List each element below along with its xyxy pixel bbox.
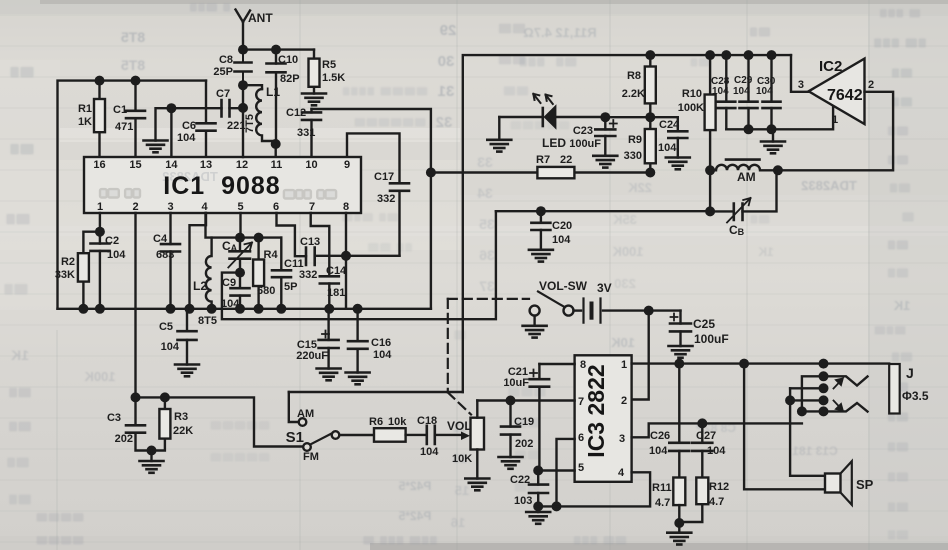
svg-text:15: 15 <box>455 483 469 498</box>
junction node pin4/rail <box>185 304 195 314</box>
dashed linkage VOL-SW to VOL <box>448 299 529 415</box>
wire left supply rail <box>58 81 207 309</box>
wire pin4 to rail <box>190 213 207 309</box>
inductor L2 <box>193 238 212 309</box>
wire pin11 stub <box>275 144 277 157</box>
wire pin1 to R2/C2 <box>83 213 100 253</box>
capacitor C15 220uF <box>296 309 338 369</box>
wire pin2 net to S1 FM <box>136 397 304 446</box>
svg-text:12: 12 <box>236 159 248 171</box>
svg-text:C29: C29 <box>734 75 753 86</box>
svg-text:VOL-SW: VOL-SW <box>539 279 588 293</box>
junction node C23 top <box>600 112 610 122</box>
svg-text:1: 1 <box>832 114 838 126</box>
IC1 bottom pin numbers <box>97 201 349 213</box>
svg-text:ANT: ANT <box>248 11 273 25</box>
wire jack ring feed <box>790 388 823 400</box>
resistor R12 4.7 <box>679 478 729 523</box>
resistor R10 100K <box>678 55 716 170</box>
switch S1 AM/FM <box>286 392 340 463</box>
capacitor C20 104 <box>531 211 572 250</box>
svg-text:100K: 100K <box>84 369 116 384</box>
IC1 9088 <box>84 157 361 213</box>
svg-text:32: 32 <box>436 114 453 131</box>
svg-text:C2: C2 <box>105 235 119 247</box>
svg-text:220uF: 220uF <box>296 350 328 362</box>
wire pin8 node <box>346 213 400 309</box>
junction node CB left <box>705 206 715 216</box>
capacitor C17 332 <box>374 171 409 256</box>
wire long vertical to top rail <box>463 55 791 392</box>
svg-text:14: 14 <box>165 159 178 171</box>
svg-text:104: 104 <box>161 341 180 353</box>
svg-text:LED: LED <box>542 136 566 150</box>
svg-text:C12: C12 <box>286 107 306 119</box>
junction node ant/C7 <box>238 103 248 113</box>
svg-text:4.7: 4.7 <box>709 496 724 508</box>
svg-text:29: 29 <box>440 22 457 39</box>
svg-text:34: 34 <box>477 185 493 201</box>
wire CA top net <box>206 213 282 238</box>
svg-text:100uF: 100uF <box>694 332 729 346</box>
svg-text:R1: R1 <box>78 103 92 115</box>
svg-text:9: 9 <box>344 159 350 171</box>
wire C28-C30 bottom to IC2 pin1 <box>726 106 833 130</box>
capacitor C26 104 <box>649 364 689 478</box>
svg-text:7: 7 <box>309 201 315 213</box>
svg-text:16: 16 <box>93 159 105 171</box>
svg-text:C6: C6 <box>182 120 196 132</box>
svg-text:5: 5 <box>237 201 243 213</box>
svg-text:R9: R9 <box>628 134 642 146</box>
variable capacitor CB <box>710 170 776 237</box>
svg-text:VOL: VOL <box>447 419 472 433</box>
svg-text:C24: C24 <box>659 119 680 131</box>
capacitor C30 104 <box>756 55 781 129</box>
svg-text:100uF: 100uF <box>569 138 601 150</box>
svg-text:C13: C13 <box>300 236 320 248</box>
junction node AM right <box>773 165 783 175</box>
svg-text:104: 104 <box>733 86 750 97</box>
junction node C10 top <box>271 45 281 55</box>
junction node ant/L1 <box>238 80 248 90</box>
svg-text:683: 683 <box>156 249 174 261</box>
ground below C20 <box>529 250 553 262</box>
svg-text:202: 202 <box>515 438 533 450</box>
wire jack sleeve feed <box>802 376 824 411</box>
LED with arrows <box>499 94 605 150</box>
junction node jack col 411 <box>819 406 829 416</box>
junction node C1 top <box>131 76 141 86</box>
capacitor C12 331 <box>286 107 321 157</box>
capacitor C23 100uF <box>569 117 617 156</box>
capacitor C13 332 <box>299 236 346 281</box>
svg-text:IC1 9088: IC1 9088 <box>163 172 280 200</box>
svg-text:1K: 1K <box>78 116 92 128</box>
variable capacitor CA <box>222 238 252 273</box>
wire bottom ground rail <box>58 308 431 310</box>
capacitor C16 104 <box>348 309 392 373</box>
junction node pin1 <box>95 227 105 237</box>
svg-text:C27: C27 <box>696 430 716 442</box>
inductor AM antenna coil <box>710 160 778 184</box>
junction node ant/C8 <box>238 45 248 55</box>
capacitor C24 104 <box>658 117 687 157</box>
svg-text:33: 33 <box>477 154 493 170</box>
junction node C27 top <box>697 418 707 428</box>
resistor R7 22 <box>536 154 574 178</box>
potentiometer VOL 10K <box>447 401 484 479</box>
junction node C9 bottom <box>235 304 245 314</box>
ground below C30 net <box>761 129 785 153</box>
svg-text:C7: C7 <box>216 88 230 100</box>
battery 3V <box>574 281 649 323</box>
capacitor C9 104 <box>221 273 250 310</box>
wire tuning loop CA to C20 net <box>222 211 496 319</box>
svg-text:C4: C4 <box>153 233 168 245</box>
ground below C5 <box>175 365 199 377</box>
IC3 2822 <box>575 355 632 482</box>
ground below C3/R3 <box>140 451 164 473</box>
svg-text:8: 8 <box>343 201 349 213</box>
svg-text:10uF: 10uF <box>503 377 529 389</box>
IC2 pin 3 lead <box>791 55 809 92</box>
svg-text:2: 2 <box>621 395 627 407</box>
junction node R3 top <box>160 392 170 402</box>
svg-text:10K: 10K <box>452 453 472 465</box>
svg-text:22K: 22K <box>173 425 193 437</box>
junction node B <box>797 406 807 416</box>
capacitor C11 5P <box>272 238 304 309</box>
svg-text:104: 104 <box>649 445 668 457</box>
capacitor C6 104 <box>177 81 216 157</box>
svg-text:R3: R3 <box>174 411 188 423</box>
svg-text:1: 1 <box>97 201 103 213</box>
junction node R8 top rail <box>645 50 655 60</box>
junction node C28 top <box>721 50 731 60</box>
wire IC3 pin3 <box>632 423 802 437</box>
svg-text:2: 2 <box>132 201 138 213</box>
svg-text:4: 4 <box>618 467 625 479</box>
svg-text:5P: 5P <box>284 281 297 293</box>
ground on pin14 net <box>144 108 172 152</box>
junction node L2 bottom <box>207 304 217 314</box>
junction node C22 top <box>533 466 543 476</box>
wire R7 net <box>431 171 650 173</box>
junction node battery/pin2 <box>644 306 654 316</box>
junction node AM left <box>705 165 715 175</box>
junction node C29 top <box>744 50 754 60</box>
headphone jack J 3.5mm <box>889 364 929 414</box>
junction node R1 top <box>95 76 105 86</box>
IC2 pin 2 output loop <box>778 79 893 170</box>
svg-text:100K: 100K <box>678 102 704 114</box>
svg-text:C1: C1 <box>113 104 127 116</box>
junction node C26 top <box>674 359 684 369</box>
capacitor C22 103 <box>510 471 548 508</box>
svg-text:16: 16 <box>451 515 465 530</box>
svg-text:2.2K: 2.2K <box>622 88 645 100</box>
wire LED net to C24 <box>605 116 678 118</box>
ground below VOL-SW <box>523 316 547 338</box>
ground below C23 <box>593 156 617 168</box>
junction node R4 bottom <box>254 304 264 314</box>
svg-text:TDA2832: TDA2832 <box>801 178 857 193</box>
svg-text:C16: C16 <box>371 337 391 349</box>
resistor R1 1K <box>78 81 105 157</box>
junction node R11/R12 bottom <box>674 518 684 528</box>
svg-text:3: 3 <box>798 79 804 91</box>
IC3 pin numbers <box>578 359 627 479</box>
svg-text:R11,12 4.7Ω: R11,12 4.7Ω <box>523 25 596 40</box>
svg-text:332: 332 <box>377 193 395 205</box>
junction node pin14 <box>166 103 176 113</box>
wire L1 top lead <box>243 85 262 89</box>
svg-text:R2: R2 <box>61 256 75 268</box>
capacitor C7 221 <box>171 88 245 132</box>
svg-text:13: 13 <box>200 159 212 171</box>
capacitor C8 25P <box>213 50 251 86</box>
junction node jack col 376 <box>819 371 829 381</box>
svg-text:R6: R6 <box>369 416 383 428</box>
svg-text:8T5: 8T5 <box>121 29 145 45</box>
wire IC3 pin4 to ground net <box>538 472 650 506</box>
svg-text:C18: C18 <box>417 415 437 427</box>
capacitor C25 100uF <box>670 311 729 346</box>
ground below R11/R12 <box>667 523 691 545</box>
svg-text:104: 104 <box>756 86 773 97</box>
jack contact upper <box>824 376 868 385</box>
junction node jack tip <box>819 359 829 369</box>
wire pin5 stub <box>239 213 241 238</box>
svg-text:1K: 1K <box>758 245 774 259</box>
wire IC3 pin7 <box>477 399 574 401</box>
svg-text:C26: C26 <box>650 430 670 442</box>
junction node C3/R3 ground <box>147 446 157 456</box>
svg-text:10K: 10K <box>610 335 634 350</box>
svg-text:3: 3 <box>619 433 625 445</box>
svg-text:36: 36 <box>479 247 495 263</box>
wire pin6 to C13 <box>277 213 307 256</box>
svg-text:31: 31 <box>438 83 455 100</box>
svg-text:C22: C22 <box>510 474 530 486</box>
junction node R8/R9 <box>645 112 655 122</box>
resistor R5 1.5K <box>309 50 346 94</box>
wire speaker top via jack <box>790 388 825 476</box>
junction node C22 bottom <box>533 501 543 511</box>
ground below C15 <box>317 369 341 381</box>
svg-text:104: 104 <box>373 349 392 361</box>
junction node A <box>785 395 795 405</box>
svg-text:L2: L2 <box>193 279 207 293</box>
svg-text:R11: R11 <box>652 482 672 494</box>
capacitor C27 104 <box>692 423 726 477</box>
ground below C16 <box>346 373 370 385</box>
svg-text:103: 103 <box>514 495 532 507</box>
svg-text:37: 37 <box>479 278 495 294</box>
capacitor C10 82P <box>267 50 300 144</box>
svg-text:C5: C5 <box>159 321 173 333</box>
junction node C14 bottom <box>324 304 334 314</box>
wire antenna top rail <box>243 48 314 50</box>
junction node R4 top <box>254 233 264 243</box>
wire IC3 pin2 V+ <box>632 311 649 400</box>
junction node SP feed <box>739 359 749 369</box>
junction node CA top <box>235 233 245 243</box>
switch VOL-SW <box>530 279 588 316</box>
svg-text:L1: L1 <box>266 85 280 99</box>
junction node C4 bottom <box>166 304 176 314</box>
svg-text:6: 6 <box>578 432 584 444</box>
wire pin7 to C14 <box>311 213 330 276</box>
ground below C19 <box>499 457 523 469</box>
junction node CA wiper/C9 <box>235 268 245 278</box>
jack insertion arrow upper <box>834 379 843 389</box>
svg-text:AM: AM <box>737 170 756 184</box>
svg-text:1.5K: 1.5K <box>322 72 345 84</box>
junction node C2 bottom <box>95 304 105 314</box>
svg-text:7T5: 7T5 <box>244 114 256 133</box>
wire C12 to C17 vertical <box>312 109 431 309</box>
junction node C3 top <box>131 392 141 402</box>
svg-text:R8: R8 <box>627 70 641 82</box>
svg-text:SP: SP <box>856 477 874 492</box>
capacitor C29 104 <box>733 55 758 129</box>
svg-text:680: 680 <box>257 285 275 297</box>
inductor L1 7T5 <box>244 85 280 144</box>
svg-text:C13 181: C13 181 <box>792 444 838 458</box>
svg-text:R7: R7 <box>536 154 550 166</box>
capacitor C18 104 <box>406 415 461 458</box>
svg-text:104: 104 <box>420 446 439 458</box>
svg-text:FM: FM <box>303 451 319 463</box>
svg-text:Φ3.5: Φ3.5 <box>902 389 929 403</box>
svg-text:11: 11 <box>271 159 283 171</box>
svg-text:C19: C19 <box>514 416 534 428</box>
wire C20 tuning net <box>496 210 710 212</box>
svg-text:33K: 33K <box>55 269 75 281</box>
capacitor C2 104 <box>91 232 127 309</box>
svg-text:82P: 82P <box>280 73 300 85</box>
junction node C11 bottom <box>276 304 286 314</box>
junction node C16 top <box>353 304 363 314</box>
svg-text:IC3 2822: IC3 2822 <box>583 364 609 457</box>
resistor R6 10k <box>369 416 407 442</box>
svg-text:181: 181 <box>327 287 345 299</box>
resistor R9 330 <box>624 117 656 172</box>
svg-text:R4: R4 <box>264 249 279 261</box>
svg-text:22K: 22K <box>627 180 651 195</box>
junction node jack col 388 <box>819 383 829 393</box>
junction node C20 top <box>536 206 546 216</box>
wire pin12 stub <box>242 85 244 157</box>
svg-text:104: 104 <box>712 86 729 97</box>
svg-text:R10: R10 <box>682 88 702 100</box>
junction node C29 bottom <box>744 124 754 134</box>
wire battery to C25 <box>649 309 681 311</box>
capacitor C5 104 <box>159 309 197 365</box>
wire pin14 stub <box>170 108 172 157</box>
wire pin9 loop <box>347 133 400 183</box>
IC1 top pin numbers <box>93 159 350 171</box>
capacitor C3 202 <box>107 397 150 450</box>
junction node pin6 ground <box>552 501 562 511</box>
svg-text:1: 1 <box>621 359 627 371</box>
svg-text:25P: 25P <box>213 66 233 78</box>
junction node C30 top <box>767 50 777 60</box>
ground below C22 <box>526 506 550 523</box>
wire IC3 pin6 to ground net <box>557 439 575 507</box>
capacitor C1 471 <box>113 81 145 157</box>
svg-text:C3: C3 <box>107 412 121 424</box>
svg-text:7: 7 <box>578 396 584 408</box>
svg-text:10k: 10k <box>388 416 407 428</box>
wire IC3 pin5 <box>538 469 574 471</box>
svg-text:8T5: 8T5 <box>198 315 217 327</box>
svg-text:4: 4 <box>201 201 208 213</box>
junction node C17/R7 <box>426 168 436 178</box>
svg-text:332: 332 <box>299 269 317 281</box>
svg-text:104: 104 <box>658 142 677 154</box>
capacitor C21 10uF <box>503 364 574 471</box>
svg-text:15: 15 <box>129 159 141 171</box>
svg-text:471: 471 <box>115 121 133 133</box>
jack contact lower <box>824 403 868 412</box>
resistor R11 4.7 <box>652 478 685 524</box>
junction node R9 bottom <box>645 168 655 178</box>
svg-text:4.7: 4.7 <box>655 497 670 509</box>
svg-text:C23: C23 <box>573 125 593 137</box>
junction node pin8/C13/C17 <box>341 251 351 261</box>
wire S1 AM to rail vertical <box>289 391 463 393</box>
resistor R8 2.2K <box>622 55 656 117</box>
wire IC3 pin1 output <box>632 362 890 364</box>
wire S1 common to R6 <box>339 434 374 436</box>
svg-text:230: 230 <box>614 276 636 291</box>
svg-text:8T5: 8T5 <box>121 57 145 73</box>
svg-text:C14: C14 <box>326 265 347 277</box>
junction node R10 top <box>705 50 715 60</box>
svg-text:AM: AM <box>297 408 314 420</box>
svg-text:1K: 1K <box>893 298 910 313</box>
svg-text:2: 2 <box>868 79 874 91</box>
antenna ANT <box>236 10 274 50</box>
resistor R4 680 <box>253 238 278 309</box>
svg-text:J: J <box>906 365 914 381</box>
svg-text:202: 202 <box>115 433 133 445</box>
capacitor C14 181 <box>320 265 347 309</box>
svg-text:104: 104 <box>177 132 196 144</box>
wire pin2 long <box>134 213 136 397</box>
svg-text:330: 330 <box>624 150 642 162</box>
svg-text:P42*5: P42*5 <box>398 479 431 493</box>
ground below R5 <box>302 94 326 106</box>
svg-text:R5: R5 <box>322 59 336 71</box>
junction node jack col 400 <box>819 395 829 405</box>
capacitor C19 202 <box>501 401 534 458</box>
ground below LED wire <box>487 117 511 152</box>
svg-text:1K: 1K <box>11 347 29 363</box>
jack insertion arrow lower <box>834 401 843 411</box>
svg-text:8: 8 <box>580 359 586 371</box>
svg-text:3V: 3V <box>597 281 612 295</box>
svg-text:100K: 100K <box>612 244 644 259</box>
svg-text:P42*5: P42*5 <box>398 509 431 523</box>
resistor R2 33K <box>55 253 89 309</box>
junction node C30 bottom <box>767 124 777 134</box>
speaker SP <box>825 461 874 505</box>
capacitor C4 683 on pin3 <box>153 213 180 309</box>
